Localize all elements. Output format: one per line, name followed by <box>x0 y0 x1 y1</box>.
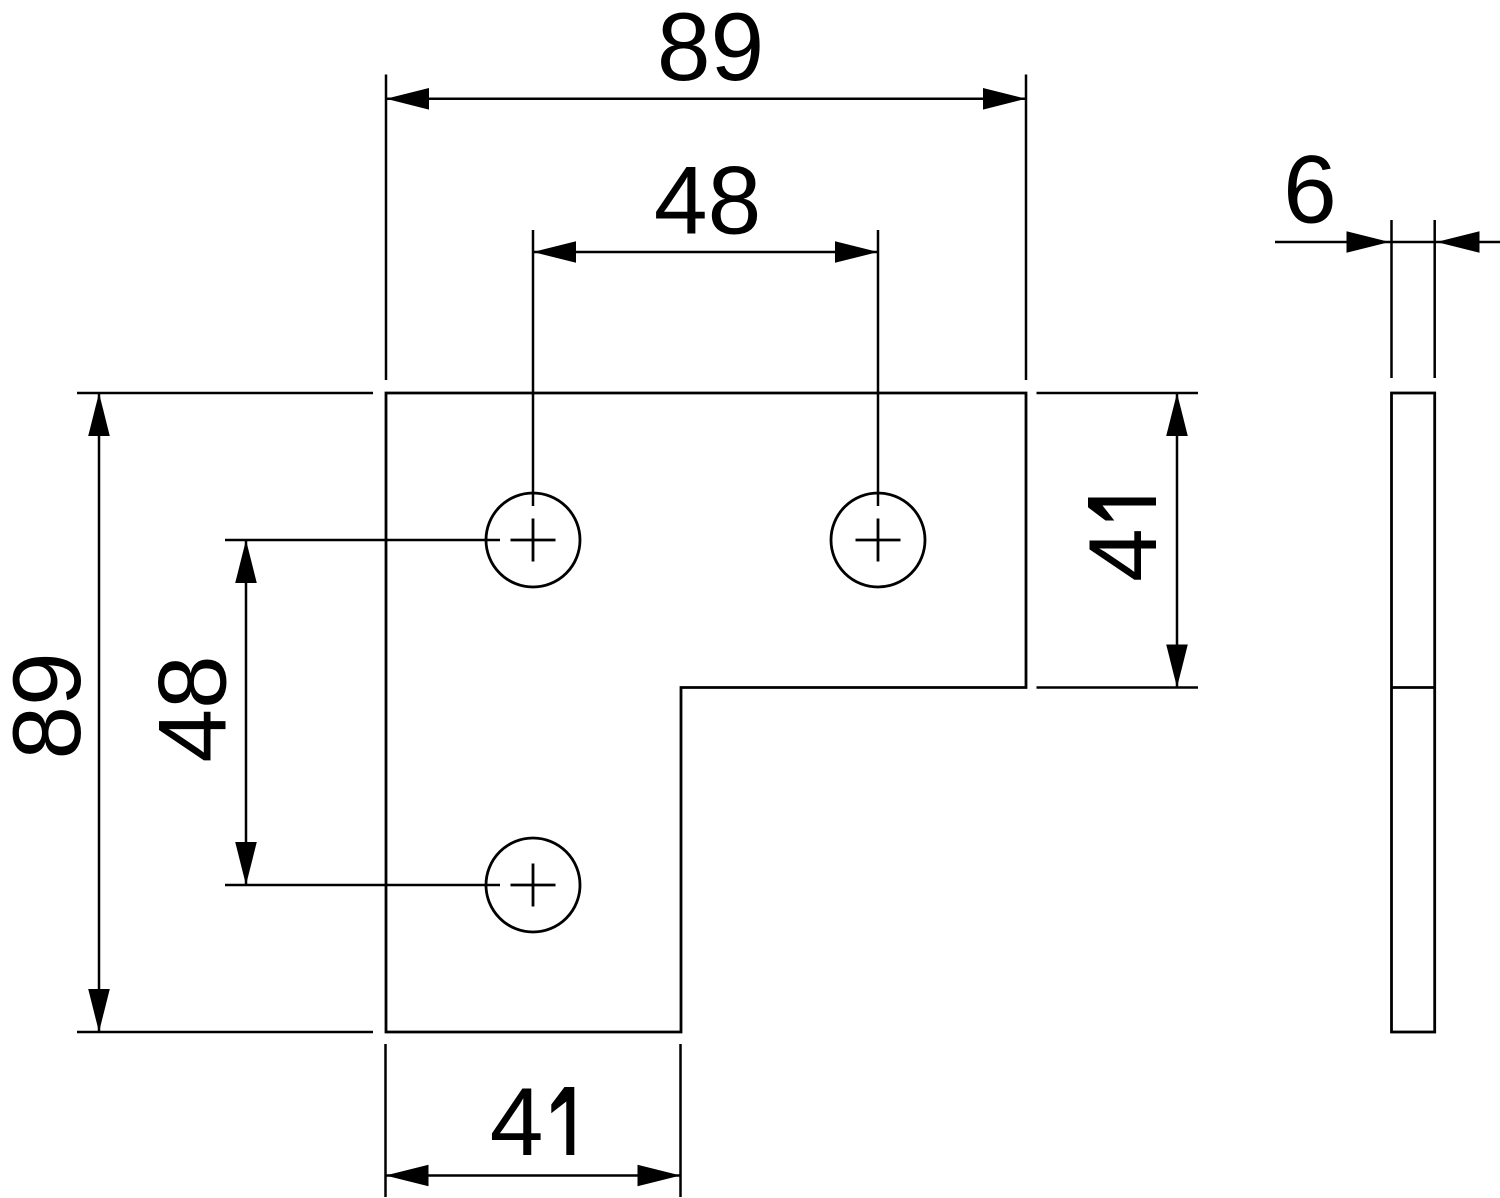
svg-text:89: 89 <box>0 652 101 759</box>
svg-text:89: 89 <box>657 0 764 101</box>
svg-text:48: 48 <box>654 148 761 255</box>
svg-text:6: 6 <box>1283 137 1337 244</box>
svg-text:4: 4 <box>1070 528 1177 582</box>
svg-text:48: 48 <box>139 655 246 762</box>
svg-text:4: 4 <box>490 1069 544 1176</box>
